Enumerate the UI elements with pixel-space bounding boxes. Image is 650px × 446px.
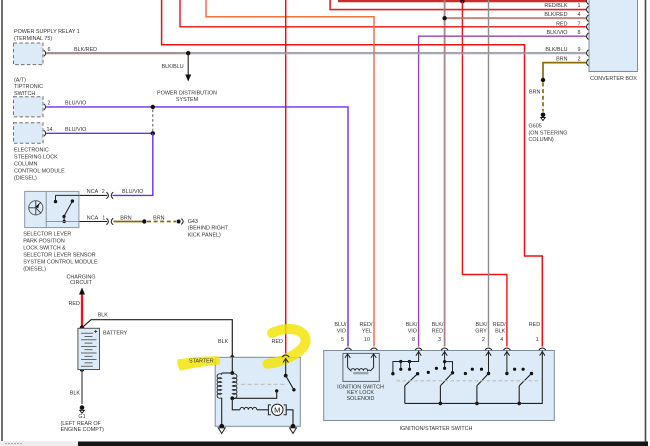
svg-text:TIPTRONIC: TIPTRONIC <box>14 84 43 90</box>
svg-text:9: 9 <box>578 47 581 53</box>
svg-text:VIO: VIO <box>408 328 417 334</box>
scrollbar dots <box>5 443 21 444</box>
svg-text:ENGINE COMPT): ENGINE COMPT) <box>61 427 105 433</box>
starter motor box M1 <box>215 357 300 426</box>
svg-text:2: 2 <box>482 337 485 343</box>
svg-text:BLK/: BLK/ <box>406 322 418 328</box>
svg-text:G605: G605 <box>529 124 542 130</box>
wire BLK/BLU to converter pin 9 <box>188 52 586 54</box>
svg-text:G1: G1 <box>78 414 85 420</box>
junction on RED/BLK feeding ignition pin 4 <box>460 0 465 4</box>
wire BLU/VIO to selector NCA 2 <box>113 133 153 195</box>
highlight marker on STARTER label <box>177 356 220 370</box>
connector pin 14 module <box>44 130 46 136</box>
svg-text:GRY: GRY <box>475 328 487 334</box>
power supply relay 1 box (dashed) <box>14 43 44 65</box>
svg-text:M: M <box>274 406 280 415</box>
svg-text:BLU/: BLU/ <box>334 322 346 328</box>
wire BLK battery to starter <box>82 320 232 358</box>
svg-text:BLU/VIO: BLU/VIO <box>122 189 143 195</box>
svg-text:POWER SUPPLY RELAY 1: POWER SUPPLY RELAY 1 <box>14 29 80 35</box>
svg-text:BLK/VIO: BLK/VIO <box>547 30 568 36</box>
ground starter motor <box>290 424 297 434</box>
svg-text:SWITCH: SWITCH <box>14 91 35 97</box>
svg-text:NCA: NCA <box>87 189 99 195</box>
dashed link between BLU/VIO junctions <box>152 110 154 131</box>
svg-text:1: 1 <box>536 337 539 343</box>
solenoid entry arrows pins 5,10 <box>345 354 376 358</box>
wire BLK battery to G1 <box>81 370 83 404</box>
ignition switch rotor dashed line <box>397 380 540 382</box>
svg-text:SELECTOR LEVER SENSOR: SELECTOR LEVER SENSOR <box>23 253 96 259</box>
svg-text:2: 2 <box>102 189 105 195</box>
wire BLK/VIO converter pin 8 to ignition pin 8 <box>419 36 586 346</box>
svg-text:4: 4 <box>578 12 581 18</box>
starter solenoid winding L2 (right) <box>232 373 237 398</box>
svg-text:10: 10 <box>364 337 370 343</box>
svg-text:SYSTEM: SYSTEM <box>176 97 199 103</box>
svg-text:BATTERY: BATTERY <box>103 330 128 336</box>
selector lever park position switch contacts <box>46 195 79 223</box>
svg-text:(ON STEERING: (ON STEERING <box>529 130 568 136</box>
wire BRN solid from NCA 1 <box>114 221 143 223</box>
wire RED charging circuit to battery <box>81 294 83 328</box>
svg-text:COLUMN): COLUMN) <box>529 137 554 143</box>
wire BRN converter pin 2 to G605 <box>543 63 586 79</box>
highlight marker hook on RED starter wire <box>268 329 306 364</box>
mechanical link dashed <box>235 383 285 385</box>
ground G1 <box>80 405 85 413</box>
svg-text:(A/T): (A/T) <box>14 78 26 84</box>
svg-text:BLK: BLK <box>98 312 109 318</box>
ignition switch pole B feed from pin 3 <box>444 351 446 368</box>
wire RED/BLK down to ignition pin 4 <box>462 1 507 346</box>
svg-text:2: 2 <box>48 101 51 107</box>
svg-text:RED: RED <box>529 322 540 328</box>
ignition switch pole D feed from pin 4 <box>506 351 508 373</box>
svg-text:IGNITION/STARTER SWITCH: IGNITION/STARTER SWITCH <box>400 426 473 432</box>
junction battery negative <box>80 367 84 371</box>
svg-text:8: 8 <box>412 337 415 343</box>
wire BLU/VIO module pin 14 <box>46 132 153 134</box>
svg-text:LOCK SWITCH &: LOCK SWITCH & <box>23 246 66 252</box>
wire BLU/VIO tiptronic pin 2 to ignition pin 5 <box>46 107 348 347</box>
svg-text:CONVERTER BOX: CONVERTER BOX <box>590 76 637 82</box>
ignition key lock solenoid box <box>343 353 379 381</box>
svg-text:VIO: VIO <box>337 328 346 334</box>
arrow to power distribution system <box>185 53 191 81</box>
ground G43 connector <box>177 219 184 225</box>
svg-text:RED/: RED/ <box>493 322 506 328</box>
svg-text:SOLENOID: SOLENOID <box>347 396 375 402</box>
svg-text:BLU/VIO: BLU/VIO <box>65 127 86 133</box>
svg-text:SYSTEM CONTROL MODULE: SYSTEM CONTROL MODULE <box>23 260 98 266</box>
svg-text:RED/: RED/ <box>360 322 373 328</box>
junction BLK/BLU node <box>186 51 190 55</box>
pole C movable contact <box>477 374 489 386</box>
svg-text:(BEHIND RIGHT: (BEHIND RIGHT <box>188 226 229 232</box>
svg-text:RED: RED <box>556 22 567 28</box>
steering lock module box (dashed) <box>14 123 44 143</box>
svg-text:CIRCUIT: CIRCUIT <box>70 280 93 286</box>
connector NCA 2 <box>106 192 113 199</box>
pole A movable contact <box>416 372 419 375</box>
selector lever module box <box>25 191 79 227</box>
svg-text:7: 7 <box>578 22 581 28</box>
svg-text:BLK: BLK <box>495 328 506 334</box>
svg-text:BRN: BRN <box>153 215 164 221</box>
svg-text:BLK: BLK <box>70 390 81 396</box>
svg-text:G43: G43 <box>188 219 198 225</box>
svg-text:BLK/RED: BLK/RED <box>74 47 97 53</box>
svg-text:BLK/BLU: BLK/BLU <box>162 64 184 70</box>
wire RED to converter pin 7 <box>180 0 586 27</box>
wire BRN dashed to ground <box>542 83 544 112</box>
pole D movable contact <box>530 372 533 375</box>
selector lever sensor symbol (circle) <box>29 201 43 215</box>
ignition/starter switch box S1 <box>324 351 555 421</box>
wire BLK/GRY to ignition pin 2 <box>488 0 490 347</box>
wire RED/BLK vertical step at x=330 <box>330 0 586 10</box>
junction solenoid feed <box>230 371 234 375</box>
wire RED to starter <box>285 0 287 354</box>
svg-text:KICK PANEL): KICK PANEL) <box>188 232 221 238</box>
wire lower contact to solenoid windings <box>232 391 276 398</box>
arrowhead into starter <box>283 359 288 363</box>
wire BLK inside starter <box>231 357 233 373</box>
connector pin 6 relay <box>44 50 46 56</box>
window frame left border <box>1 0 3 441</box>
connector RED at starter <box>282 355 289 357</box>
window bottom scrollbar track <box>0 441 78 446</box>
window frame right border <box>645 0 647 446</box>
svg-text:2: 2 <box>578 56 581 62</box>
svg-text:BLK/: BLK/ <box>476 322 488 328</box>
svg-text:5: 5 <box>341 337 344 343</box>
svg-text:BLK: BLK <box>218 339 229 345</box>
junction BLU/VIO lower <box>151 131 155 135</box>
svg-text:CONTROL MODULE: CONTROL MODULE <box>14 168 65 174</box>
svg-text:NCA: NCA <box>87 216 99 222</box>
solenoid core <box>353 372 368 374</box>
wire RED/BLK top jumper to converter upper pin <box>338 0 586 2</box>
svg-text:(LEFT REAR OF: (LEFT REAR OF <box>61 421 102 427</box>
pole D free contacts <box>513 368 516 371</box>
converter pin connectors (left edge arcs) <box>587 0 589 66</box>
key lock solenoid coil L4 <box>348 355 374 371</box>
pole A contact stubs <box>399 360 411 371</box>
svg-text:ELECTRONIC: ELECTRONIC <box>14 147 49 153</box>
wire winding L1 to ground <box>221 398 223 427</box>
svg-text:BLK/: BLK/ <box>432 322 444 328</box>
pole C free contacts <box>464 372 467 375</box>
svg-text:1: 1 <box>102 216 105 222</box>
ignition switch pole A feed from pin 8 <box>393 351 419 373</box>
svg-text:RED: RED <box>69 301 80 307</box>
svg-text:RED: RED <box>272 339 283 345</box>
ignition pin connectors (top arcs) <box>345 348 546 350</box>
svg-text:BLK/RED: BLK/RED <box>544 12 567 18</box>
wire coil to motor <box>257 409 269 411</box>
wire common bus from pin 1 <box>405 351 543 404</box>
svg-text:4: 4 <box>500 337 503 343</box>
starter switch lower contact <box>275 389 278 392</box>
svg-text:6: 6 <box>48 47 51 53</box>
ignition switch pole C feed from pin 2 <box>488 351 490 373</box>
starter solenoid winding L1 (left) <box>217 373 222 398</box>
converter box U2 <box>589 0 638 82</box>
junction starter terminal <box>230 355 234 359</box>
pole B movable contact <box>440 373 452 386</box>
junction BRN G43 <box>142 219 146 223</box>
svg-text:POWER DISTRIBUTION: POWER DISTRIBUTION <box>157 91 217 97</box>
svg-text:(DIESEL): (DIESEL) <box>23 267 46 273</box>
connector NCA 1 <box>106 218 113 225</box>
svg-text:(DIESEL): (DIESEL) <box>14 175 37 181</box>
svg-text:BLK/BLU: BLK/BLU <box>545 47 567 53</box>
wire RED/YEL to ignition pin 10 <box>206 0 374 347</box>
svg-text:BLU/VIO: BLU/VIO <box>65 101 86 107</box>
wire NCA 2 stub from selector box <box>79 194 107 196</box>
svg-text:BRN: BRN <box>120 215 131 221</box>
connector pin 2 tiptronic <box>44 104 46 110</box>
starter switch upper contact <box>284 374 288 378</box>
junction BRN <box>541 78 545 82</box>
arrow charging circuit <box>79 288 85 295</box>
wire to pull-in winding <box>222 372 233 374</box>
battery BAT1 <box>78 328 100 369</box>
svg-text:COLUMN: COLUMN <box>14 161 37 167</box>
junction BLK/RED <box>442 16 446 20</box>
svg-text:(TERMINAL 75): (TERMINAL 75) <box>14 36 52 42</box>
wire to starter switch contact <box>285 359 287 376</box>
ground G605 <box>541 113 546 121</box>
wire BRN dashed to G43 <box>147 221 176 223</box>
wire to armature coil <box>232 398 240 410</box>
svg-text:1: 1 <box>578 3 581 9</box>
svg-text:RED/BLK: RED/BLK <box>544 3 567 9</box>
junction BLU/VIO upper <box>151 105 155 109</box>
starter armature coil L3 <box>240 407 257 409</box>
wire BLK/RED to converter pin 4 <box>445 17 586 19</box>
svg-text:YEL: YEL <box>362 328 372 334</box>
svg-text:14: 14 <box>47 127 53 133</box>
svg-text:BRN: BRN <box>529 90 540 96</box>
wire motor to ground <box>286 410 293 427</box>
svg-text:BRN: BRN <box>556 56 567 62</box>
svg-text:SELECTOR LEVER: SELECTOR LEVER <box>23 232 71 238</box>
svg-text:PARK POSITION: PARK POSITION <box>23 239 65 245</box>
svg-text:RED: RED <box>432 328 443 334</box>
svg-text:3: 3 <box>438 337 441 343</box>
pole B free contacts <box>427 371 430 374</box>
ground starter solenoid <box>218 424 225 434</box>
wire BLK/RED vertical to ignition pin 3 <box>443 0 445 347</box>
ignition pin entry arrowheads <box>416 352 545 356</box>
starter switch arm <box>286 376 294 390</box>
svg-text:STEERING LOCK: STEERING LOCK <box>14 154 58 160</box>
svg-text:8: 8 <box>578 30 581 36</box>
wire BLK/RED from power supply relay pin 6 <box>46 52 188 54</box>
window bottom scrollbar thumb <box>78 442 648 446</box>
tiptronic switch box (dashed) <box>14 97 44 117</box>
junction battery positive <box>80 325 85 330</box>
junction winding L2 bottom <box>230 396 234 400</box>
wire RED to ignition pin 1 <box>162 0 543 347</box>
wire NCA 1 stub from selector box <box>79 221 107 223</box>
starter motor M <box>268 404 286 415</box>
svg-text:STARTER: STARTER <box>189 359 214 365</box>
